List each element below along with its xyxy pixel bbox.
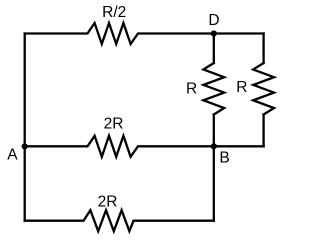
- wire resistor to B: [213, 115, 215, 147]
- wire D down to resistor: [213, 34, 215, 64]
- svg-text:R: R: [236, 79, 247, 96]
- node A: [22, 143, 28, 149]
- svg-text:A: A: [7, 147, 18, 164]
- resistor R (middle branch, vertical, D to B): [203, 63, 224, 115]
- resistor R/2 (top branch, with wires): [25, 23, 264, 44]
- svg-text:D: D: [208, 12, 219, 29]
- svg-text:R: R: [186, 81, 197, 98]
- wire bottom up to B: [213, 146, 215, 220]
- svg-text:2R: 2R: [104, 115, 124, 132]
- wire left vertical: [24, 34, 26, 221]
- svg-text:B: B: [219, 150, 229, 167]
- node D: [211, 30, 217, 36]
- resistor 2R (bottom branch, with wires): [25, 210, 214, 231]
- svg-text:R/2: R/2: [102, 4, 126, 21]
- node B: [211, 143, 217, 149]
- wire right vertical (bottom segment): [262, 115, 264, 147]
- svg-text:2R: 2R: [98, 194, 118, 211]
- resistor 2R (middle branch A to B, with wires): [25, 136, 264, 157]
- resistor R (right branch, vertical): [253, 63, 274, 115]
- wire right vertical (top segment): [262, 34, 264, 64]
